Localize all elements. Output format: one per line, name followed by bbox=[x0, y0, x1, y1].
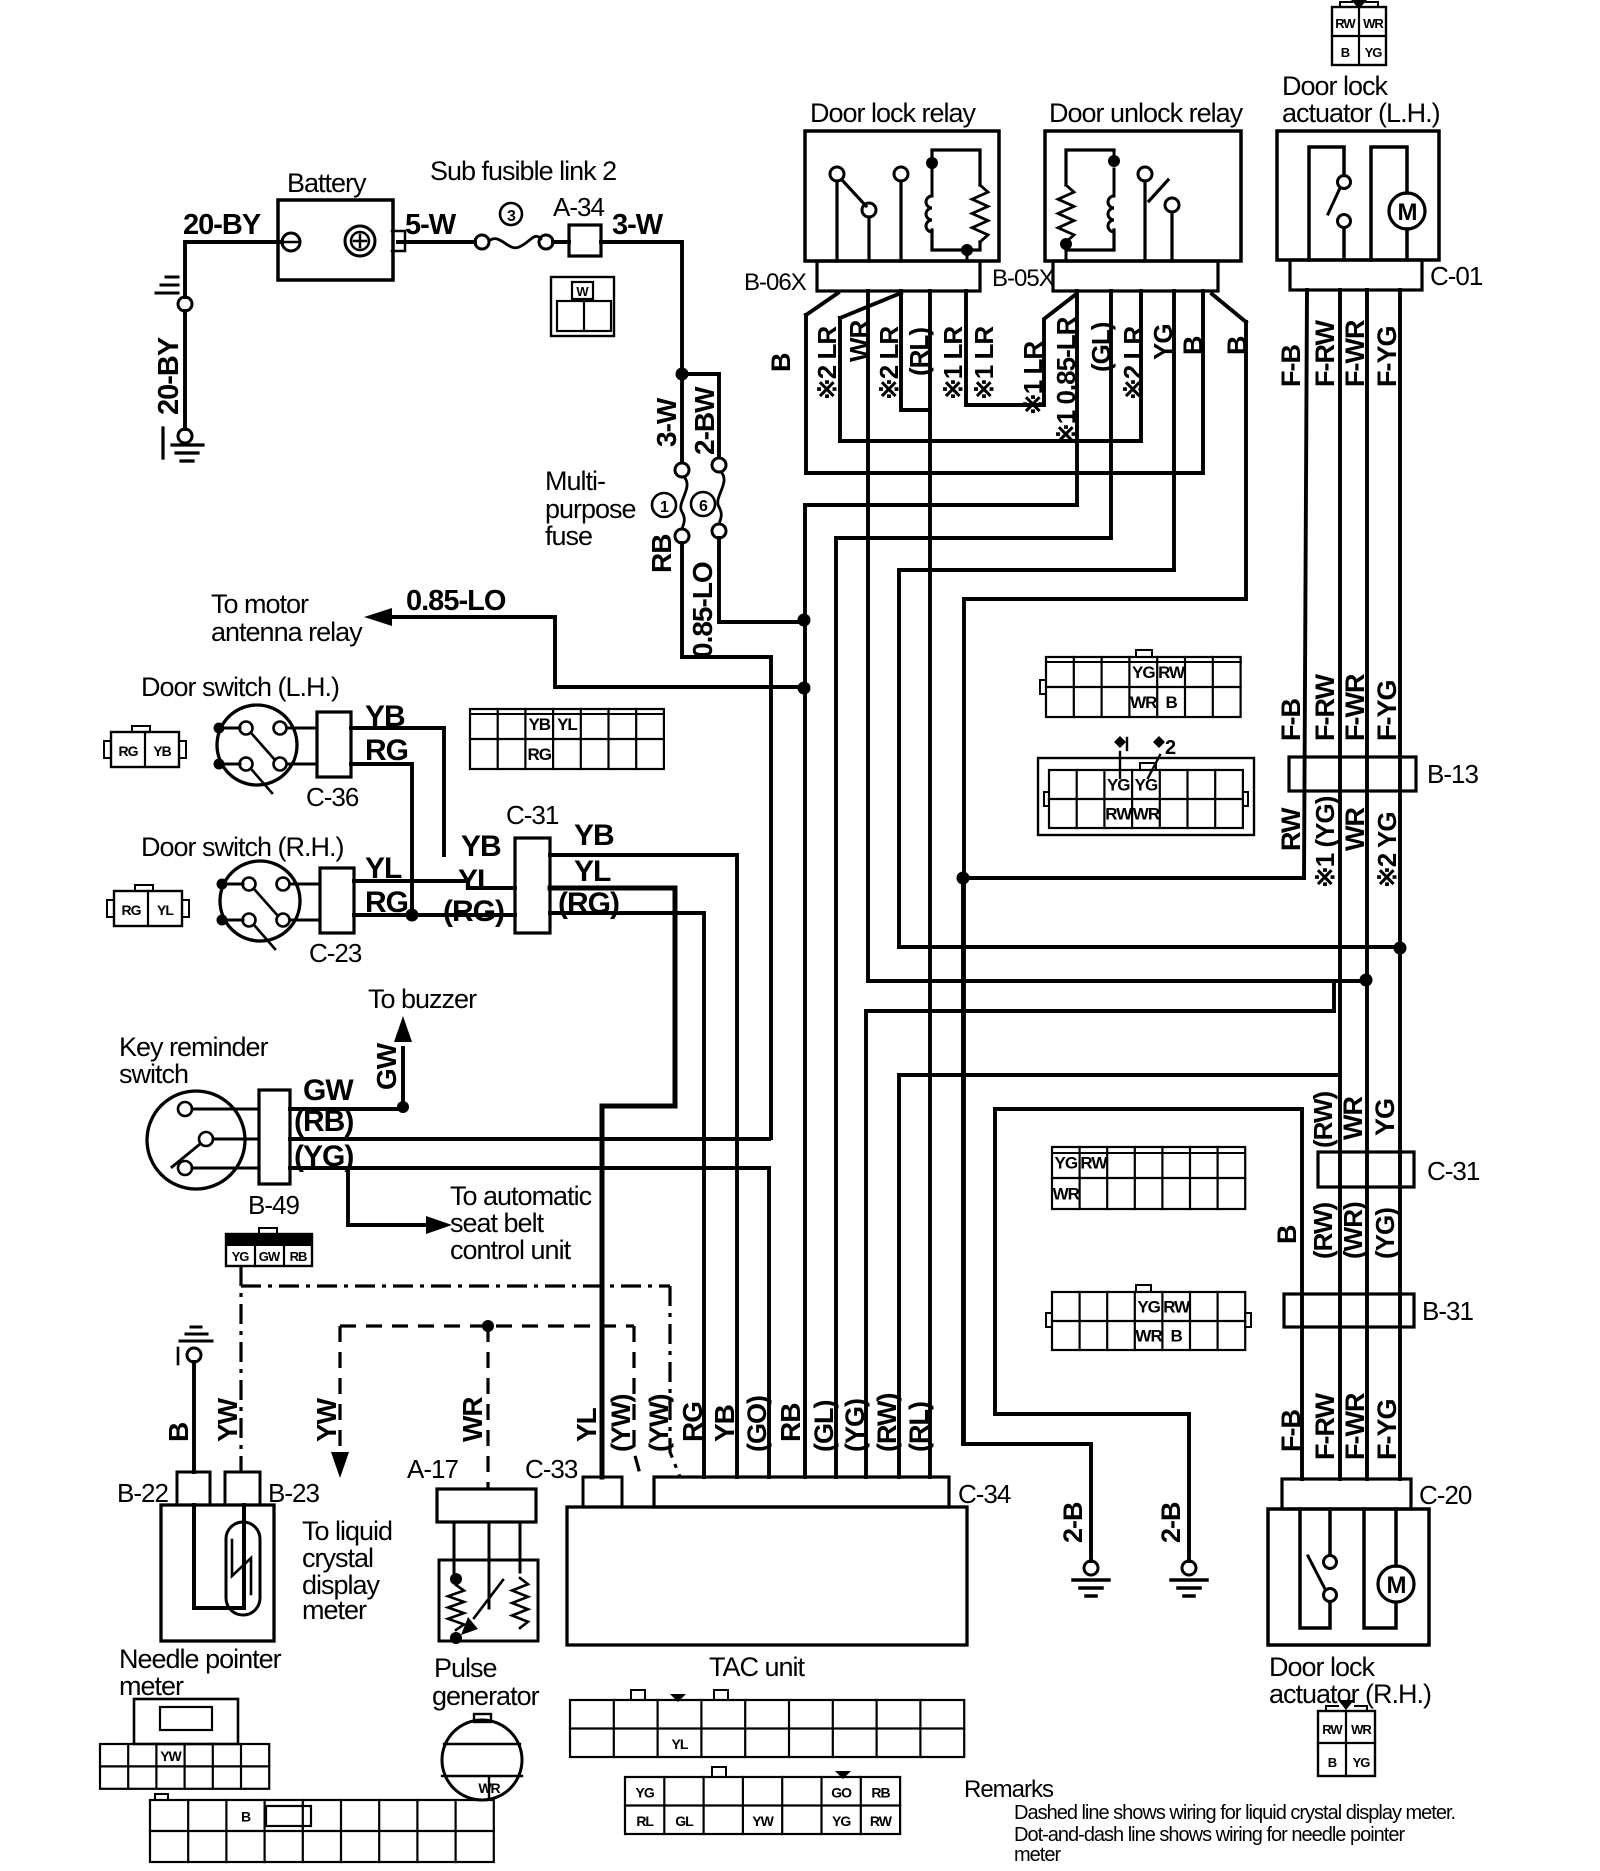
wire B link to ground bus bbox=[964, 599, 1246, 1444]
connector bar C-31 right bbox=[1318, 1152, 1414, 1187]
svg-text:C-20: C-20 bbox=[1419, 1480, 1472, 1510]
svg-text:Sub fusible link 2: Sub fusible link 2 bbox=[430, 156, 616, 186]
battery B1 bbox=[278, 200, 393, 280]
svg-text:YG: YG bbox=[1132, 663, 1155, 682]
ground needle meter bars bbox=[180, 1327, 212, 1341]
svg-text:C-31: C-31 bbox=[506, 800, 559, 830]
mark diamond 1 bbox=[1114, 736, 1126, 748]
needle pointer meter box bbox=[161, 1505, 274, 1641]
svg-text:B-06X: B-06X bbox=[744, 269, 807, 296]
door switch LH pin c bbox=[240, 758, 253, 771]
connector bar C-20 bbox=[1282, 1479, 1411, 1509]
wire 3-W bbox=[601, 242, 682, 368]
svg-text:※1 LR: ※1 LR bbox=[1018, 341, 1048, 415]
svg-text:Remarks: Remarks bbox=[964, 1776, 1054, 1803]
svg-text:YL: YL bbox=[157, 902, 174, 918]
svg-text:RG: RG bbox=[119, 743, 139, 759]
wire (YG) key bbox=[290, 1168, 769, 1477]
svg-text:YB: YB bbox=[153, 743, 171, 759]
svg-text:fuse: fuse bbox=[545, 521, 592, 551]
pulse gen resistor 2 bbox=[512, 1578, 528, 1628]
svg-text:crystal: crystal bbox=[302, 1543, 373, 1573]
svg-text:YG: YG bbox=[1370, 1099, 1400, 1136]
connector grid B YG-YG-RW-WR bbox=[1038, 758, 1254, 835]
battery negative terminal bbox=[282, 233, 300, 251]
svg-text:YW: YW bbox=[160, 1748, 182, 1764]
svg-text:YG: YG bbox=[1148, 324, 1178, 360]
svg-text:GW: GW bbox=[303, 1074, 354, 1107]
connector RG-YB symbol bbox=[111, 732, 179, 767]
key reminder blade bbox=[172, 1144, 200, 1167]
connector B-49 bbox=[259, 1090, 290, 1184]
svg-text:YG: YG bbox=[1055, 1154, 1078, 1173]
door switch LH pin d bbox=[274, 758, 287, 771]
svg-text:YB: YB bbox=[528, 715, 550, 734]
junction dot F-WR bbox=[1360, 974, 1373, 987]
wire F-YG bbox=[1398, 290, 1402, 1479]
svg-text:A-34: A-34 bbox=[553, 192, 604, 222]
svg-text:(RW): (RW) bbox=[872, 1394, 902, 1452]
svg-text:YL: YL bbox=[672, 1736, 689, 1752]
symbol circle 3 bbox=[500, 203, 522, 225]
pulse gen node top bbox=[450, 1573, 462, 1585]
connector grid A YG-RW-WR-B bbox=[1046, 657, 1241, 717]
svg-text:YG: YG bbox=[832, 1813, 851, 1829]
door unlock relay switch blade bbox=[1149, 180, 1168, 201]
wire 0.85-LR from B-05X bbox=[1075, 291, 1079, 505]
fuse 6 terminal top bbox=[712, 458, 726, 472]
connector top right 2x2 bbox=[1332, 7, 1386, 65]
svg-text:Battery: Battery bbox=[287, 168, 367, 198]
svg-text:F-B: F-B bbox=[1276, 345, 1306, 387]
svg-text:YG: YG bbox=[636, 1784, 655, 1800]
ground needle meter circle bbox=[187, 1348, 201, 1362]
svg-text:3-W: 3-W bbox=[651, 397, 682, 447]
svg-text:C-31: C-31 bbox=[1427, 1156, 1480, 1186]
svg-text:meter: meter bbox=[302, 1595, 367, 1625]
svg-text:F-YG: F-YG bbox=[1372, 681, 1402, 742]
wire B from B-06X bbox=[806, 293, 838, 473]
connector TAC 2 bbox=[625, 1777, 900, 1834]
door switch LH leads bbox=[226, 728, 317, 764]
door lock relay coil bbox=[926, 196, 932, 232]
svg-text:F-B: F-B bbox=[1276, 1410, 1306, 1452]
svg-text:WR: WR bbox=[1351, 1722, 1372, 1737]
svg-text:B: B bbox=[766, 353, 796, 372]
key reminder pin b bbox=[199, 1132, 213, 1146]
svg-text:C-36: C-36 bbox=[306, 782, 359, 812]
fuse 1 terminal top bbox=[675, 463, 689, 477]
wire YL from RH switch bbox=[354, 881, 515, 888]
svg-text:※2 LR: ※2 LR bbox=[812, 326, 842, 400]
wire B link B-06X to B-05X bbox=[806, 291, 1203, 473]
key reminder switch body bbox=[147, 1091, 245, 1189]
svg-text:B: B bbox=[1341, 45, 1350, 60]
connector grid YB-YL-RG bbox=[470, 709, 664, 769]
svg-text:GW: GW bbox=[259, 1249, 281, 1264]
door lock actuator RH box bbox=[1268, 1509, 1429, 1645]
svg-text:WR: WR bbox=[1053, 1185, 1080, 1204]
ground terminal circle upper bbox=[178, 297, 192, 311]
wire RG to TAC bbox=[550, 913, 704, 1477]
svg-text:W: W bbox=[576, 284, 589, 299]
svg-text:F-RW: F-RW bbox=[1310, 320, 1340, 387]
wire B to B-31 bbox=[995, 1109, 1302, 1479]
svg-text:WR: WR bbox=[1133, 805, 1160, 824]
svg-text:RB: RB bbox=[775, 1404, 806, 1442]
svg-text:YB: YB bbox=[574, 819, 614, 852]
actuator RH switch contact top bbox=[1324, 1556, 1337, 1569]
junction dot GW bbox=[397, 1101, 409, 1113]
pulse gen node bottom bbox=[450, 1632, 462, 1644]
svg-text:antenna relay: antenna relay bbox=[211, 617, 363, 647]
svg-text:2: 2 bbox=[1165, 737, 1176, 759]
actuator LH switch contact bottom bbox=[1338, 215, 1351, 228]
wire B from B-05X down bbox=[1212, 294, 1246, 599]
svg-text:C-33: C-33 bbox=[525, 1454, 578, 1484]
connector TAC 1 bbox=[570, 1700, 964, 1757]
door unlock relay box bbox=[1045, 131, 1241, 261]
wire return to TAC (RW) bbox=[899, 1075, 1339, 1477]
door switch RH leads bbox=[229, 884, 320, 920]
fusible link element bbox=[489, 236, 541, 248]
door switch LH pin b bbox=[274, 722, 287, 735]
door switch LH terminal dots bbox=[214, 723, 225, 734]
svg-text:B: B bbox=[1222, 336, 1252, 355]
wire 5-W bbox=[398, 240, 475, 244]
wire YG from B-05X bbox=[1172, 291, 1176, 570]
svg-text:Pulse: Pulse bbox=[434, 1653, 497, 1683]
actuator LH motor loop bbox=[1371, 147, 1407, 260]
svg-text:F-WR: F-WR bbox=[1340, 1393, 1370, 1460]
svg-text:YW: YW bbox=[212, 1397, 243, 1442]
svg-text:YG: YG bbox=[1353, 1755, 1371, 1770]
connector bar B-31 bbox=[1284, 1294, 1414, 1327]
pulse gen arrow bbox=[474, 1580, 503, 1618]
connector symbol W block bbox=[551, 277, 614, 336]
arrowhead to motor antenna relay bbox=[364, 608, 392, 626]
door unlock relay bottom node bbox=[1060, 238, 1072, 250]
svg-text:purpose: purpose bbox=[545, 494, 636, 524]
fuse 6 terminal bottom bbox=[712, 524, 726, 538]
svg-text:6: 6 bbox=[699, 498, 708, 515]
arrow to seat belt bbox=[426, 1216, 452, 1234]
svg-text:2-B: 2-B bbox=[1058, 1502, 1088, 1543]
connector meter 2 bbox=[150, 1800, 494, 1862]
symbol circle 1 bbox=[652, 493, 676, 517]
wire YG link left bbox=[899, 570, 1174, 947]
pulse generator circle bbox=[442, 1720, 522, 1800]
junction dot antenna relay bbox=[798, 682, 811, 695]
svg-text:WR: WR bbox=[457, 1397, 488, 1442]
connector C-31 left box bbox=[515, 838, 550, 933]
wire RG from LH switch bbox=[351, 764, 412, 915]
svg-text:Door lock: Door lock bbox=[1282, 71, 1389, 101]
svg-text:(YG): (YG) bbox=[294, 1140, 353, 1173]
svg-text:(YW): (YW) bbox=[644, 1395, 674, 1452]
connector RG-YL symbol bbox=[114, 891, 182, 926]
wire YB from LH switch bbox=[351, 728, 444, 855]
dashed wire YW horizontal bbox=[340, 1324, 634, 1327]
battery ground wire 20-BY bbox=[185, 242, 282, 429]
ground terminal circle lower bbox=[178, 429, 192, 443]
svg-text:YW: YW bbox=[752, 1813, 774, 1829]
connector meter 1 bbox=[134, 1699, 238, 1744]
arrow to buzzer bbox=[394, 1016, 412, 1042]
svg-text:※1 LR: ※1 LR bbox=[938, 326, 968, 400]
svg-text:Dot-and-dash line shows wiring: Dot-and-dash line shows wiring for needl… bbox=[1014, 1824, 1405, 1846]
svg-text:WR: WR bbox=[1135, 1327, 1162, 1346]
svg-text:Door lock: Door lock bbox=[1269, 1652, 1376, 1682]
svg-text:(GL): (GL) bbox=[809, 1401, 839, 1452]
wire YL to TAC bbox=[550, 888, 675, 1477]
svg-text:YG: YG bbox=[1365, 45, 1383, 60]
svg-text:C-34: C-34 bbox=[958, 1479, 1011, 1509]
svg-text:RL: RL bbox=[636, 1813, 654, 1829]
svg-text:RW: RW bbox=[1276, 807, 1306, 851]
pulse gen resistor 1 bbox=[448, 1585, 464, 1630]
svg-text:B: B bbox=[241, 1809, 251, 1825]
door switch RH terminal dots bbox=[217, 879, 228, 890]
junction dot F-YG bbox=[1394, 942, 1407, 955]
svg-text:B-49: B-49 bbox=[248, 1190, 299, 1220]
key reminder pin a bbox=[178, 1102, 192, 1116]
svg-text:YL: YL bbox=[571, 1407, 602, 1442]
wire 0.85-LO from fuse bbox=[719, 538, 804, 622]
door lock relay switch pivot bbox=[830, 167, 844, 181]
svg-text:RG: RG bbox=[677, 1402, 708, 1442]
connector A-17 bar bbox=[437, 1489, 536, 1522]
wire GW bbox=[290, 1048, 403, 1109]
svg-text:YL: YL bbox=[574, 855, 611, 888]
actuator RH motor bbox=[1378, 1566, 1414, 1602]
ground 2-B second bbox=[1182, 1561, 1196, 1575]
actuator RH switch loop bbox=[1300, 1509, 1330, 1628]
door unlock relay resistor bbox=[1058, 185, 1074, 242]
connector bar B-05X bbox=[1053, 261, 1218, 291]
svg-text:C-23: C-23 bbox=[309, 938, 362, 968]
svg-text:YG: YG bbox=[1137, 1298, 1160, 1317]
door unlock relay coil stem bbox=[1113, 169, 1116, 250]
connector bar C-01 bbox=[1290, 260, 1422, 290]
dash-dot wire horizontal bbox=[241, 1284, 670, 1287]
svg-text:actuator (L.H.): actuator (L.H.) bbox=[1282, 98, 1440, 128]
ground symbol lower bbox=[163, 428, 203, 461]
wire 2-BW branch bbox=[682, 374, 719, 457]
door switch RH blades bbox=[255, 890, 278, 949]
battery positive tabs bbox=[392, 231, 405, 251]
dash-dot wire needle meter bbox=[239, 1266, 242, 1472]
svg-text:B-23: B-23 bbox=[268, 1478, 319, 1508]
door switch LH body bbox=[217, 705, 297, 785]
svg-text:Door unlock relay: Door unlock relay bbox=[1049, 98, 1244, 128]
svg-text:RW: RW bbox=[1080, 1154, 1108, 1173]
svg-text:(GO): (GO) bbox=[742, 1396, 772, 1452]
svg-text:To motor: To motor bbox=[211, 589, 309, 619]
actuator LH motor stem bbox=[1405, 229, 1409, 260]
door switch RH pin d bbox=[277, 914, 290, 927]
dashed wire YW to C-33 bbox=[634, 1326, 640, 1474]
svg-text:F-YG: F-YG bbox=[1372, 1400, 1402, 1461]
connector bar B-13 bbox=[1289, 757, 1416, 791]
svg-text:3-W: 3-W bbox=[612, 209, 664, 241]
door lock relay coil stem bbox=[931, 169, 934, 196]
wire ※2LR link to F-WR bbox=[868, 979, 1366, 983]
wire B needle meter bbox=[192, 1362, 196, 1472]
svg-text:B-31: B-31 bbox=[1422, 1296, 1473, 1326]
svg-text:※1 (YG): ※1 (YG) bbox=[1310, 796, 1340, 888]
wire (RB) key bbox=[290, 1137, 769, 1141]
dashed wire to LCD arrow bbox=[338, 1326, 341, 1452]
connector bar C-34 bbox=[654, 1477, 949, 1507]
svg-text:WR: WR bbox=[1363, 16, 1384, 31]
svg-text:F-YG: F-YG bbox=[1372, 327, 1402, 388]
door lock relay coil loop bbox=[932, 150, 980, 250]
svg-text:YW: YW bbox=[311, 1397, 342, 1442]
svg-text:1: 1 bbox=[660, 499, 669, 516]
svg-text:RW: RW bbox=[1335, 16, 1356, 31]
svg-text:(YW): (YW) bbox=[606, 1395, 636, 1452]
fusible link terminal right bbox=[539, 235, 553, 249]
wire RG from RH switch bbox=[354, 913, 515, 917]
wire (RL) main down bbox=[928, 291, 932, 1477]
svg-text:To liquid: To liquid bbox=[302, 1516, 392, 1546]
door switch LH pin a bbox=[240, 722, 253, 735]
svg-text:RW: RW bbox=[1163, 1298, 1191, 1317]
svg-text:RB: RB bbox=[646, 535, 677, 573]
svg-text:※2 YG: ※2 YG bbox=[1372, 812, 1402, 888]
svg-text:(WR): (WR) bbox=[1338, 1202, 1368, 1259]
actuator RH motor stem bbox=[1394, 1509, 1398, 1566]
svg-text:meter: meter bbox=[119, 1671, 184, 1701]
svg-text:YB: YB bbox=[709, 1405, 740, 1442]
wire F-B bbox=[1304, 290, 1307, 878]
svg-text:GW: GW bbox=[371, 1042, 402, 1090]
wire WR link to B-05X ※2 LR bbox=[840, 291, 1141, 441]
actuator LH switch blade bbox=[1328, 188, 1340, 214]
svg-text:B: B bbox=[1272, 1225, 1302, 1244]
symbol circle 6 bbox=[691, 492, 715, 516]
key reminder pin c bbox=[178, 1161, 192, 1175]
svg-text:0.85-LO: 0.85-LO bbox=[687, 562, 718, 658]
junction dot fuse LO bbox=[798, 614, 811, 627]
connector B-22 bbox=[177, 1472, 210, 1505]
actuator LH motor bbox=[1389, 193, 1425, 229]
connector grid D YG-RW-WR-B bbox=[1052, 1292, 1245, 1350]
svg-text:RW: RW bbox=[1158, 663, 1186, 682]
fusible link terminal left bbox=[475, 235, 489, 249]
connector B-23 bbox=[225, 1472, 260, 1505]
wire RB from fuse bbox=[682, 543, 771, 1138]
svg-text:M: M bbox=[1398, 199, 1417, 226]
connector YG-GW-RB symbol bbox=[226, 1234, 312, 1246]
svg-text:F-WR: F-WR bbox=[1340, 320, 1370, 387]
door unlock relay coil node top bbox=[1108, 155, 1120, 167]
dashed wire WR to A-17 bbox=[486, 1326, 489, 1489]
svg-text:Door switch (R.H.): Door switch (R.H.) bbox=[141, 832, 344, 862]
svg-text:(YG): (YG) bbox=[840, 1399, 870, 1452]
svg-text:(RW): (RW) bbox=[1308, 1091, 1338, 1148]
svg-text:To buzzer: To buzzer bbox=[368, 984, 477, 1014]
wire YB to TAC bbox=[550, 855, 737, 1477]
actuator RH motor loop bbox=[1364, 1509, 1396, 1628]
connector A-34 bbox=[569, 225, 601, 256]
fuse 1 element bbox=[681, 477, 687, 529]
door unlock relay coil bbox=[1108, 196, 1114, 232]
door unlock relay coil loop bbox=[1066, 150, 1114, 250]
key reminder leads bbox=[192, 1109, 259, 1168]
svg-text:(GL): (GL) bbox=[1086, 322, 1116, 372]
needle meter filament bbox=[232, 1540, 251, 1594]
svg-text:C-01: C-01 bbox=[1430, 261, 1483, 291]
svg-text:generator: generator bbox=[432, 1681, 540, 1711]
svg-text:20-BY: 20-BY bbox=[183, 209, 261, 241]
svg-text:A-17: A-17 bbox=[407, 1454, 458, 1484]
wire 3-W to fuse bbox=[680, 374, 684, 462]
svg-text:F-RW: F-RW bbox=[1310, 674, 1340, 741]
wire ※2 LR B-06X down bbox=[866, 291, 870, 981]
ground 2-B first bbox=[1084, 1561, 1098, 1575]
wire return to TAC (YG) bbox=[866, 1011, 1334, 1477]
junction dot dashed YW bbox=[482, 1320, 494, 1332]
svg-text:B: B bbox=[1178, 336, 1208, 355]
svg-text:WR: WR bbox=[1130, 693, 1157, 712]
svg-text:B-13: B-13 bbox=[1427, 759, 1478, 789]
svg-text:B: B bbox=[163, 1423, 194, 1442]
svg-text:F-RW: F-RW bbox=[1310, 1393, 1340, 1460]
svg-text:Needle pointer: Needle pointer bbox=[119, 1644, 282, 1674]
connector C-36 bbox=[317, 712, 351, 777]
svg-text:(RG): (RG) bbox=[443, 895, 504, 928]
svg-text:B: B bbox=[1171, 1327, 1183, 1346]
door lock relay bottom node bbox=[961, 244, 973, 256]
svg-text:3: 3 bbox=[507, 208, 516, 225]
svg-text:YG: YG bbox=[1107, 776, 1130, 795]
svg-text:※2 LR: ※2 LR bbox=[1118, 326, 1148, 400]
svg-text:control unit: control unit bbox=[450, 1235, 572, 1265]
door lock relay switch blade bbox=[842, 180, 866, 206]
svg-text:Door switch (L.H.): Door switch (L.H.) bbox=[141, 672, 339, 702]
svg-text:RB: RB bbox=[290, 1249, 307, 1264]
svg-text:M: M bbox=[1387, 1572, 1406, 1599]
door lock relay pin bbox=[894, 167, 908, 181]
svg-text:(RG): (RG) bbox=[558, 887, 619, 920]
needle meter lamp bbox=[226, 1522, 260, 1615]
svg-text:GL: GL bbox=[675, 1813, 694, 1829]
actuator RH switch contact bottom bbox=[1324, 1589, 1337, 1602]
svg-text:20-BY: 20-BY bbox=[153, 337, 185, 415]
wire to seat belt branch bbox=[348, 1168, 438, 1225]
mark diamond 2 bbox=[1153, 736, 1165, 748]
svg-text:(YG): (YG) bbox=[1370, 1208, 1400, 1259]
wire F-RW bbox=[1338, 290, 1342, 1479]
svg-text:Door lock relay: Door lock relay bbox=[810, 98, 977, 128]
svg-text:To automatic: To automatic bbox=[450, 1181, 592, 1211]
svg-text:B: B bbox=[1165, 693, 1177, 712]
wire (GL) link left bbox=[836, 538, 1111, 1477]
fuse 6 element bbox=[718, 472, 724, 524]
arrow to LCD meter bbox=[331, 1452, 349, 1478]
svg-text:5-W: 5-W bbox=[405, 209, 457, 241]
svg-text:2-B: 2-B bbox=[1156, 1502, 1186, 1543]
door switch RH body bbox=[220, 861, 300, 941]
connector bottom right 2x2 bbox=[1318, 1711, 1375, 1776]
door lock actuator LH box bbox=[1277, 131, 1439, 260]
TAC unit box bbox=[567, 1507, 967, 1645]
wire ground bus 2 bbox=[995, 1109, 1189, 1561]
pulse generator leads bbox=[454, 1522, 520, 1608]
actuator LH switch loop bbox=[1309, 147, 1344, 260]
